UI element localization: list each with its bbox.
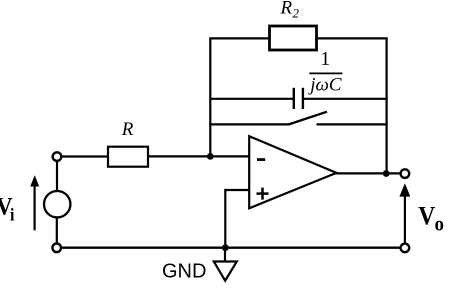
- wire switch right: [317, 123, 388, 125]
- svg-text:V: V: [418, 202, 435, 231]
- source Vi circle: [44, 191, 70, 217]
- switch blade: [288, 112, 327, 125]
- label R2: [280, 0, 300, 21]
- wire node to source: [56, 161, 58, 191]
- resistor R: [108, 147, 148, 167]
- label Vo: [418, 202, 444, 235]
- wire source to bottom node: [56, 217, 58, 244]
- wire R2 right: [317, 37, 388, 39]
- arrow Vo: [399, 183, 410, 242]
- node junction output feedback: [383, 170, 390, 177]
- svg-text:o: o: [435, 212, 444, 235]
- wire bottom rail: [61, 247, 401, 249]
- label R: [121, 119, 134, 140]
- wire capacitor right: [304, 98, 388, 100]
- svg-text:1: 1: [320, 48, 330, 70]
- wire feedback right vertical: [386, 38, 388, 173]
- op-amp plus sign: [257, 188, 269, 200]
- svg-text:R: R: [280, 0, 293, 19]
- arrow Vi: [30, 175, 39, 230]
- node input terminal top: [53, 152, 62, 161]
- resistor R2: [270, 26, 317, 50]
- node output terminal: [401, 169, 410, 178]
- op-amp U1: [249, 136, 336, 208]
- label Vi: [0, 194, 15, 225]
- wire switch left: [209, 123, 288, 125]
- svg-text:2: 2: [293, 6, 300, 21]
- svg-text:i: i: [10, 205, 15, 225]
- node input terminal bottom: [52, 244, 61, 253]
- wire op-amp non-inverting input: [225, 189, 250, 248]
- capacitor C plates: [294, 88, 303, 109]
- wire capacitor left: [209, 98, 293, 100]
- wire feedback left vertical: [209, 38, 211, 156]
- node junction ground: [222, 244, 229, 251]
- svg-text:GND: GND: [162, 261, 206, 283]
- node junction at inverting input: [207, 153, 214, 160]
- wire R to op-amp inverting input: [148, 155, 250, 157]
- svg-text:jωC: jωC: [307, 75, 342, 96]
- node output terminal bottom: [401, 244, 410, 253]
- wire input top: node to resistor R: [57, 155, 108, 157]
- ground: [214, 248, 237, 281]
- op-amp minus sign: [257, 158, 265, 161]
- wire output: [336, 172, 401, 174]
- label GND: [162, 261, 206, 283]
- svg-text:R: R: [121, 119, 134, 140]
- label 1/jwC fraction: [307, 48, 342, 96]
- wire to R2 left: [209, 37, 269, 39]
